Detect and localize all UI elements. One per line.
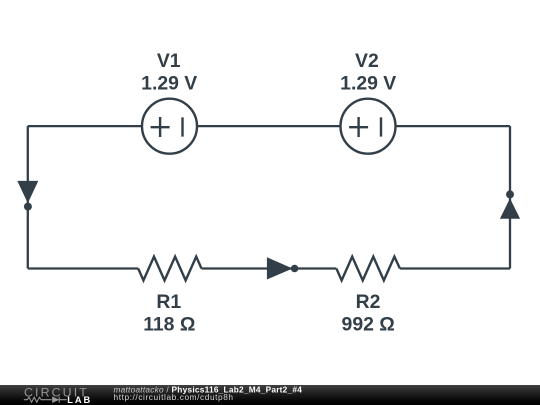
svg-text:http://circuitlab.com/cdutp8h: http://circuitlab.com/cdutp8h [114, 392, 234, 402]
svg-text:V2: V2 [355, 50, 379, 72]
svg-text:LAB: LAB [67, 395, 92, 405]
svg-text:V1: V1 [157, 50, 181, 72]
svg-text:1.29 V: 1.29 V [340, 72, 396, 94]
svg-text:118 Ω: 118 Ω [143, 314, 195, 336]
svg-text:1.29 V: 1.29 V [141, 72, 197, 94]
svg-text:R2: R2 [356, 291, 381, 313]
svg-text:992 Ω: 992 Ω [342, 314, 395, 336]
svg-text:R1: R1 [156, 291, 181, 313]
